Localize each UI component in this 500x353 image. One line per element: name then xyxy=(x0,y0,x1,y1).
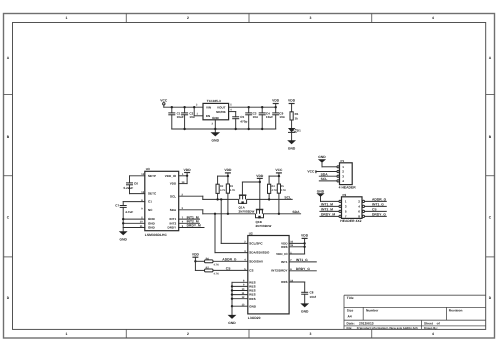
svg-text:VDD: VDD xyxy=(256,174,264,178)
svg-text:0.22uF: 0.22uF xyxy=(124,186,134,190)
svg-text:VDD_IO: VDD_IO xyxy=(165,174,177,178)
svg-text:C: C xyxy=(7,216,10,220)
svg-text:P1: P1 xyxy=(341,159,345,163)
svg-text:VDD: VDD xyxy=(272,99,280,103)
svg-text:NR/FB: NR/FB xyxy=(216,110,226,114)
svg-text:Sheet of: Sheet of xyxy=(424,322,441,326)
svg-text:6: 6 xyxy=(358,210,360,214)
svg-text:GND: GND xyxy=(228,321,236,325)
svg-text:SCL: SCL xyxy=(284,195,291,199)
svg-text:Title: Title xyxy=(347,296,354,300)
svg-text:RES: RES xyxy=(281,245,287,249)
svg-text:2: 2 xyxy=(187,332,189,336)
svg-text:U2: U2 xyxy=(249,232,253,236)
svg-text:VDD: VDD xyxy=(170,182,177,186)
svg-text:EN: EN xyxy=(206,114,210,118)
svg-text:SDA: SDA xyxy=(292,210,300,214)
svg-text:C8: C8 xyxy=(310,291,314,295)
svg-text:A: A xyxy=(7,56,10,60)
svg-text:D1: D1 xyxy=(297,128,301,132)
svg-text:R5: R5 xyxy=(281,185,285,188)
svg-text:VDD_IO: VDD_IO xyxy=(276,252,288,256)
svg-text:4.7K: 4.7K xyxy=(214,273,220,276)
svg-text:INT1: INT1 xyxy=(281,260,288,264)
svg-text:Drawn By:: Drawn By: xyxy=(424,327,438,330)
svg-text:VDD: VDD xyxy=(301,234,309,238)
svg-text:2: 2 xyxy=(196,104,198,107)
svg-text:DRDY_G: DRDY_G xyxy=(296,267,310,271)
svg-text:LSM303DLHC: LSM303DLHC xyxy=(145,233,168,237)
svg-text:NC: NC xyxy=(148,208,153,212)
svg-text:1: 1 xyxy=(345,200,347,204)
svg-text:GND: GND xyxy=(212,138,220,142)
svg-text:GND: GND xyxy=(301,309,309,313)
svg-text:B: B xyxy=(7,135,10,139)
svg-text:SDA: SDA xyxy=(321,172,329,176)
svg-text:ADDR_G: ADDR_G xyxy=(222,257,237,261)
svg-text:5: 5 xyxy=(230,104,232,107)
svg-text:ADDR_G: ADDR_G xyxy=(372,198,387,202)
svg-text:Date:: Date: xyxy=(347,322,355,326)
svg-text:4.7K: 4.7K xyxy=(220,189,226,192)
svg-text:10uF: 10uF xyxy=(177,115,184,119)
svg-text:INT1_G: INT1_G xyxy=(296,258,308,262)
svg-text:RES: RES xyxy=(249,297,255,301)
svg-text:Number: Number xyxy=(366,308,379,312)
svg-text:470p: 470p xyxy=(240,119,247,123)
svg-text:R2: R2 xyxy=(220,185,224,188)
svg-text:C7: C7 xyxy=(115,204,119,208)
svg-text:INT2_M: INT2_M xyxy=(321,207,333,211)
svg-text:INT1_M: INT1_M xyxy=(321,202,333,206)
svg-text:4.7uF: 4.7uF xyxy=(125,210,133,214)
svg-text:File:: File: xyxy=(347,327,353,330)
svg-text:VDD: VDD xyxy=(224,168,232,172)
svg-text:4.7K: 4.7K xyxy=(272,189,278,192)
svg-text:R1: R1 xyxy=(295,112,299,116)
svg-text:C6: C6 xyxy=(134,182,138,186)
svg-text:D: D xyxy=(489,296,492,300)
svg-text:Size: Size xyxy=(347,308,354,312)
svg-text:1: 1 xyxy=(66,332,68,336)
svg-text:GND: GND xyxy=(249,304,257,308)
svg-text:U3: U3 xyxy=(146,167,150,171)
svg-text:1: 1 xyxy=(66,16,68,20)
svg-text:2: 2 xyxy=(358,200,360,204)
svg-text:SDO/SA0: SDO/SA0 xyxy=(249,259,263,263)
svg-text:GND: GND xyxy=(212,116,220,120)
svg-text:1k: 1k xyxy=(295,116,299,120)
svg-text:SETP: SETP xyxy=(148,174,156,178)
svg-text:VDD: VDD xyxy=(288,99,296,103)
svg-text:CS: CS xyxy=(249,269,253,273)
svg-text:9: 9 xyxy=(141,207,143,210)
svg-text:4: 4 xyxy=(432,332,434,336)
svg-text:DRDY_M: DRDY_M xyxy=(187,224,201,228)
svg-text:A: A xyxy=(489,56,492,60)
svg-text:HEADER 4X2: HEADER 4X2 xyxy=(340,219,361,223)
svg-text:C: C xyxy=(489,216,492,220)
svg-text:SDA/SDI/SDO: SDA/SDI/SDO xyxy=(249,251,270,255)
svg-text:CS: CS xyxy=(372,208,377,212)
svg-text:C5: C5 xyxy=(240,115,244,119)
svg-text:1: 1 xyxy=(342,165,344,169)
svg-text:R4: R4 xyxy=(272,185,276,188)
svg-text:GND: GND xyxy=(318,155,326,159)
svg-text:TC1185-3: TC1185-3 xyxy=(207,99,221,103)
svg-text:D:\product information\..\New: D:\product information\..\New axis AddOn… xyxy=(357,327,418,330)
svg-text:4 HEADER: 4 HEADER xyxy=(339,185,357,189)
svg-text:VCC: VCC xyxy=(307,170,315,174)
svg-text:SCL: SCL xyxy=(321,177,328,181)
svg-text:B: B xyxy=(489,135,492,139)
svg-text:2: 2 xyxy=(342,170,344,174)
svg-text:C1: C1 xyxy=(148,200,152,204)
svg-text:4: 4 xyxy=(342,179,344,183)
svg-text:3: 3 xyxy=(342,174,344,178)
svg-text:2N7002DW: 2N7002DW xyxy=(256,224,272,228)
svg-text:Revision: Revision xyxy=(449,308,463,312)
svg-text:8: 8 xyxy=(358,215,360,219)
svg-text:10nf: 10nf xyxy=(310,295,316,299)
svg-text:3: 3 xyxy=(212,123,214,126)
svg-text:INT1_G: INT1_G xyxy=(372,203,384,207)
svg-text:RES: RES xyxy=(281,280,287,284)
svg-text:4.7K: 4.7K xyxy=(230,189,236,192)
svg-text:2: 2 xyxy=(187,16,189,20)
svg-text:5: 5 xyxy=(345,210,347,214)
svg-text:INT2/DRDY: INT2/DRDY xyxy=(271,269,287,273)
svg-text:DRDY: DRDY xyxy=(167,226,176,230)
svg-text:2012/6/13: 2012/6/13 xyxy=(359,322,374,326)
svg-text:VCC: VCC xyxy=(160,99,168,103)
svg-text:GND: GND xyxy=(148,226,156,230)
svg-text:VDD: VDD xyxy=(184,168,192,172)
svg-text:P2: P2 xyxy=(343,193,347,197)
svg-text:SDA: SDA xyxy=(170,208,177,212)
svg-text:4.7K: 4.7K xyxy=(281,189,287,192)
svg-text:R3: R3 xyxy=(230,185,234,188)
svg-text:3: 3 xyxy=(310,16,312,20)
svg-text:DRDY_M: DRDY_M xyxy=(321,212,335,216)
svg-text:SCL: SCL xyxy=(170,194,176,198)
svg-text:GND: GND xyxy=(317,189,325,193)
svg-text:104: 104 xyxy=(279,115,284,119)
svg-text:3: 3 xyxy=(310,332,312,336)
svg-text:10uF: 10uF xyxy=(266,115,273,119)
svg-text:4: 4 xyxy=(358,205,360,209)
svg-text:DRDY_G: DRDY_G xyxy=(372,213,386,217)
svg-text:VCC: VCC xyxy=(275,168,283,172)
svg-text:R7: R7 xyxy=(206,267,210,270)
svg-text:4: 4 xyxy=(432,16,434,20)
svg-text:D: D xyxy=(7,296,10,300)
svg-text:A4: A4 xyxy=(348,315,352,319)
svg-text:VDD: VDD xyxy=(192,253,200,257)
svg-text:GND: GND xyxy=(119,237,127,241)
svg-text:VIN: VIN xyxy=(206,106,211,110)
svg-text:L3GD20: L3GD20 xyxy=(248,316,261,320)
svg-text:CS: CS xyxy=(226,267,231,271)
svg-text:3: 3 xyxy=(345,205,347,209)
svg-text:4.7K: 4.7K xyxy=(214,264,220,267)
svg-text:SCL/SPC: SCL/SPC xyxy=(249,242,263,246)
svg-text:104: 104 xyxy=(253,115,258,119)
svg-text:SETC: SETC xyxy=(148,192,157,196)
svg-text:R6: R6 xyxy=(206,257,210,260)
svg-text:2N7002DW: 2N7002DW xyxy=(239,209,255,213)
svg-text:1: 1 xyxy=(197,112,199,115)
svg-text:7: 7 xyxy=(345,215,347,219)
svg-text:GND: GND xyxy=(288,146,296,150)
